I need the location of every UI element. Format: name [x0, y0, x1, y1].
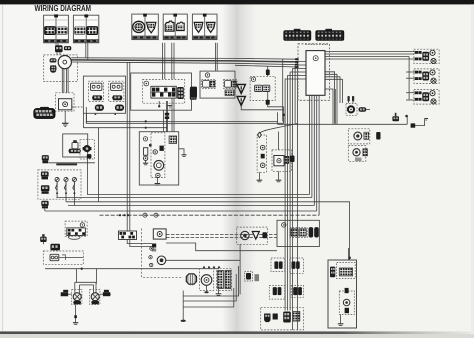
svg-text:WIRING DIAGRAM: WIRING DIAGRAM	[35, 4, 92, 13]
